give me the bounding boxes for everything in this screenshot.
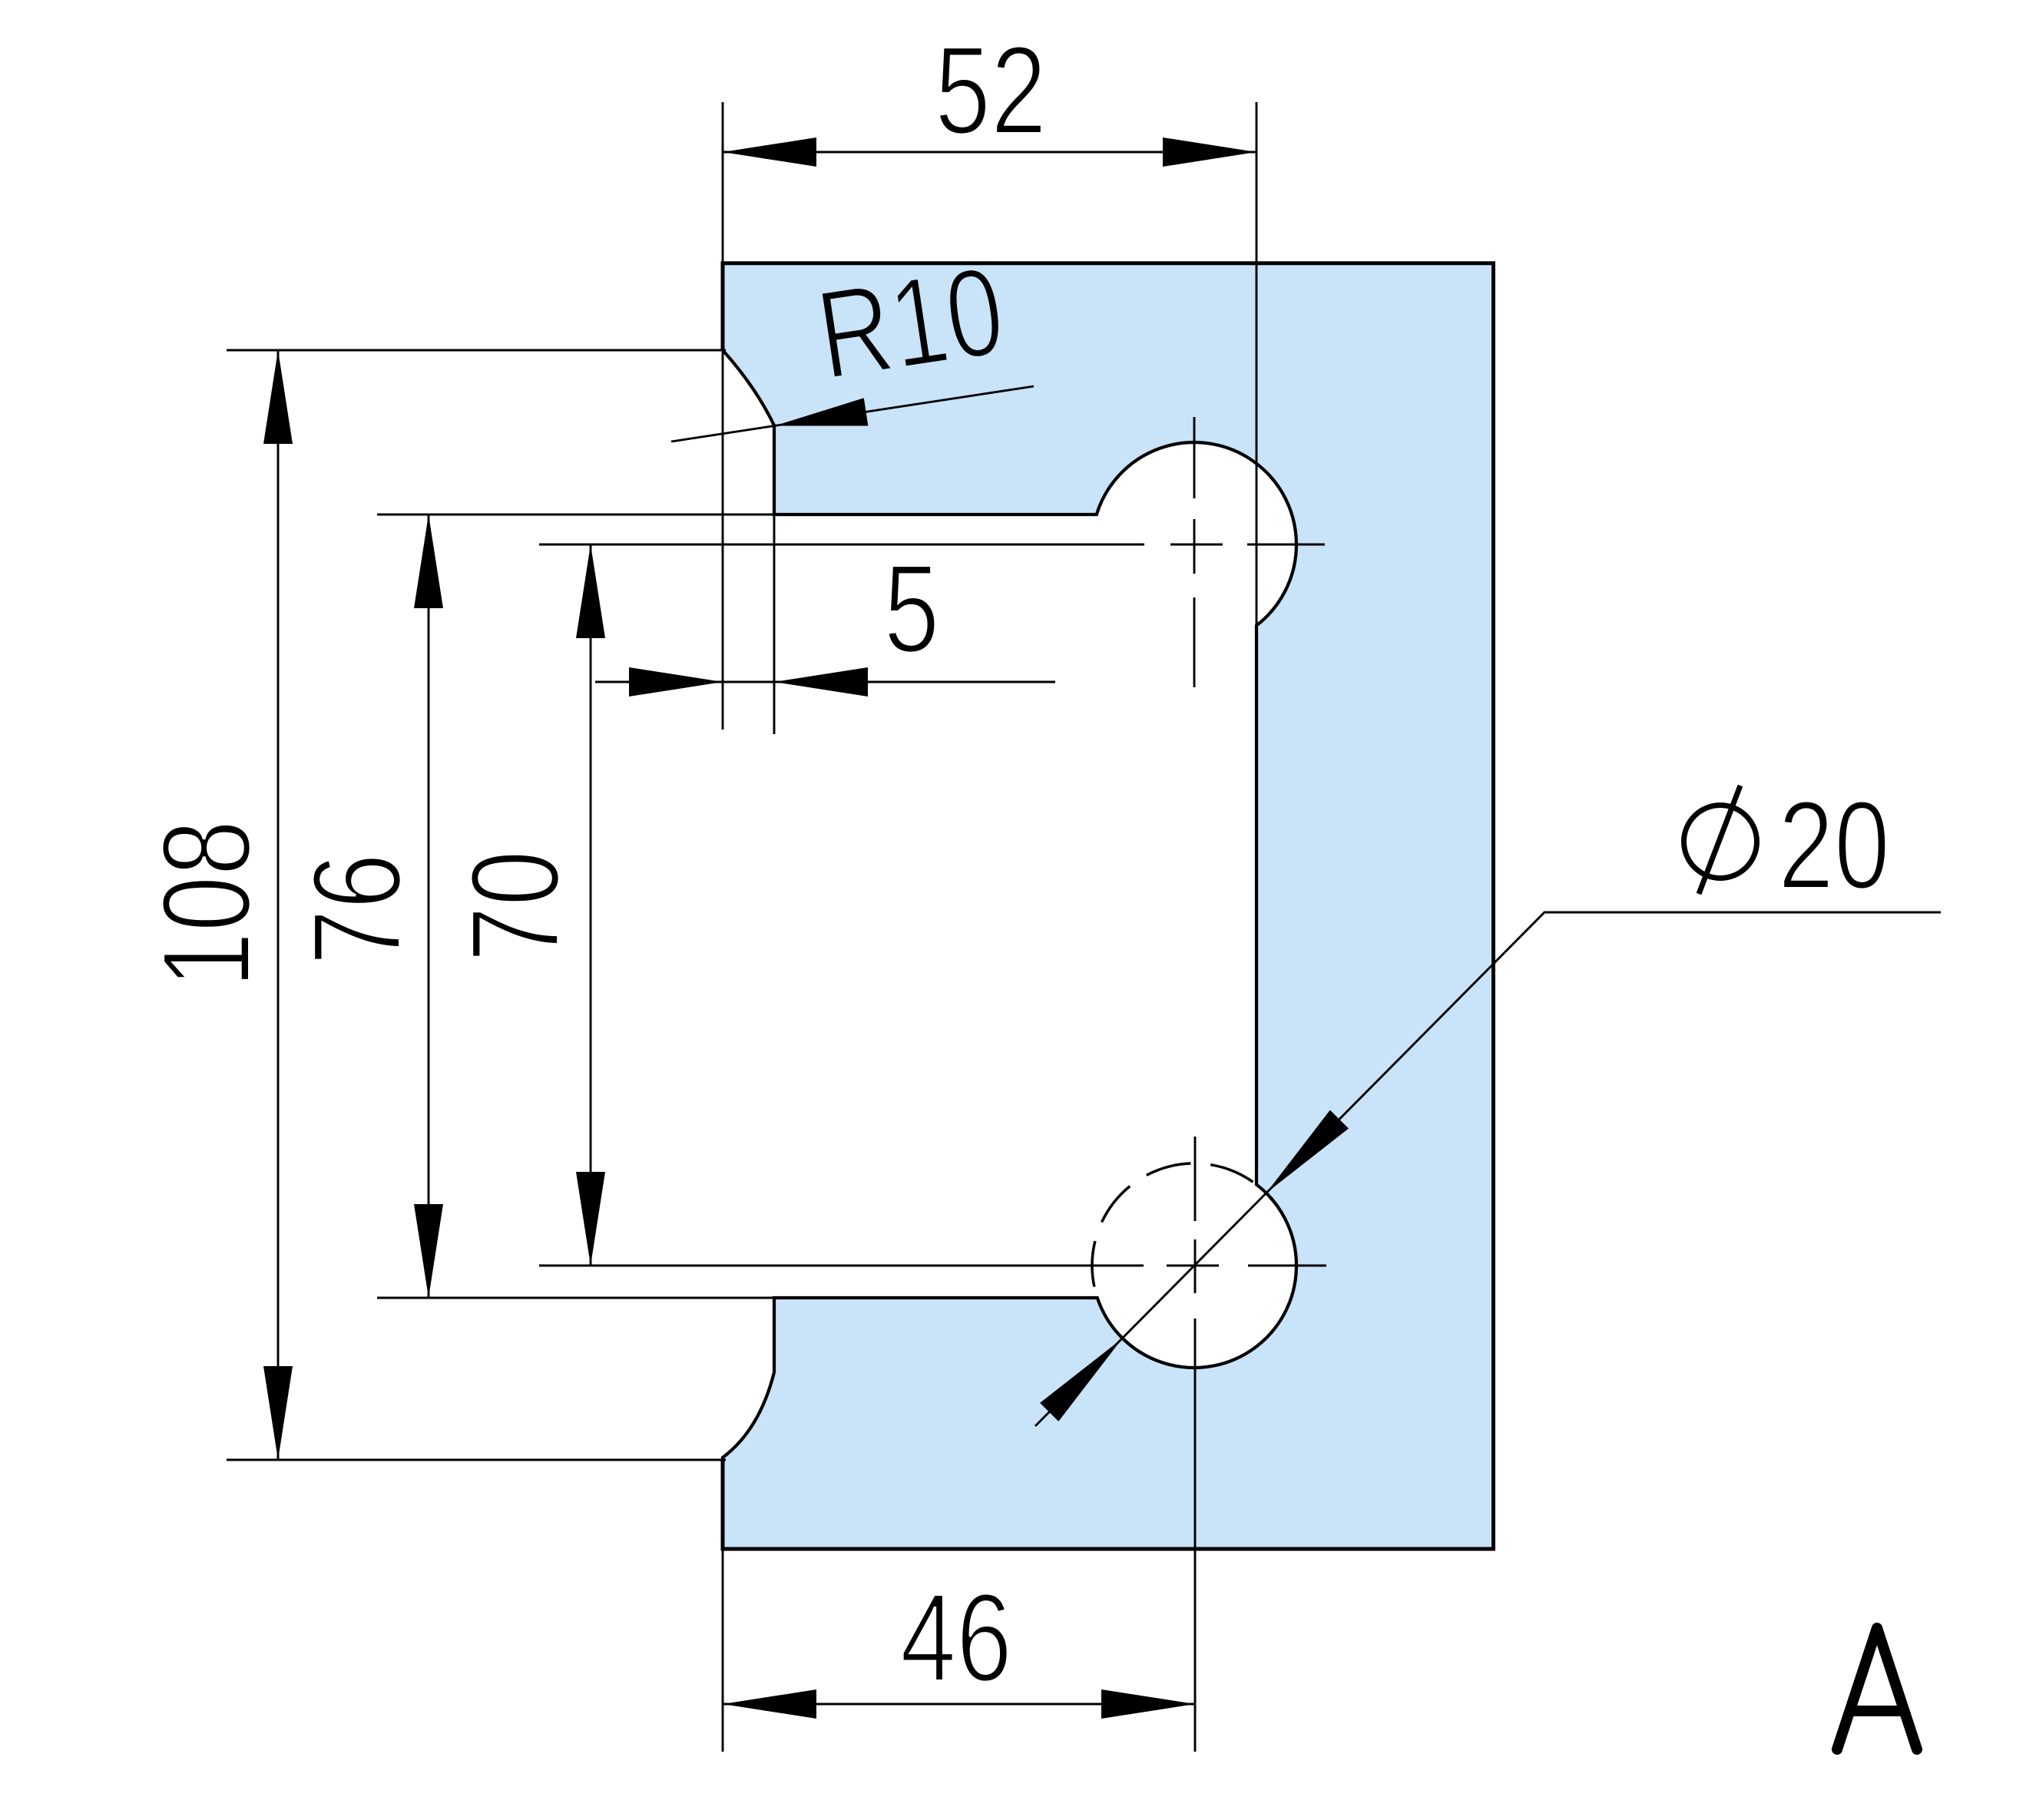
dimension line 5: [595, 681, 1055, 683]
70 top: [576, 544, 605, 638]
svg-text:76: 76: [287, 853, 427, 965]
extension 46 left: [722, 1549, 724, 1752]
svg-text:108: 108: [137, 820, 276, 988]
extension 5 right (notch inner edge column): [773, 515, 776, 734]
dimension line 108: [277, 350, 280, 1460]
svg-text:5: 5: [884, 539, 940, 679]
dimension line 46: [723, 1703, 1195, 1706]
centerline bottom hole horizontal (also 70 bottom extension): [539, 1265, 1144, 1267]
R10 arrow (tip on arc, pointing down-left along leader): [775, 398, 868, 425]
76 bottom: [414, 1204, 443, 1298]
centerline top hole horizontal (also 70 top extension): [539, 544, 1144, 546]
svg-text:70: 70: [445, 850, 585, 962]
5 right (outside, pointing left): [774, 667, 868, 697]
46 left: [723, 1689, 816, 1719]
centerline top hole vertical: [1193, 417, 1196, 498]
5 left (outside, pointing right): [629, 667, 723, 697]
hidden (dashed) arc of bottom hole: [1092, 1163, 1256, 1298]
46 right: [1101, 1689, 1195, 1719]
52 right: [1163, 137, 1256, 167]
arrowheads: [263, 137, 1349, 1719]
leader diameter 20: [1035, 912, 1941, 1426]
centerline bottom hole vertical (also 46 right extension): [1194, 1137, 1197, 1221]
extension 76 top: [377, 514, 774, 516]
svg-text:52: 52: [935, 21, 1047, 160]
52 left: [723, 137, 816, 167]
76 top: [414, 515, 443, 608]
108 top: [263, 350, 293, 444]
svg-text:46: 46: [900, 1568, 1012, 1708]
svg-text:20: 20: [1778, 776, 1890, 915]
dimension line 52: [723, 151, 1256, 154]
108 bottom: [263, 1366, 293, 1460]
dimension line 70: [590, 544, 592, 1266]
thin line work: [227, 102, 1941, 1752]
extension 76 bottom: [377, 1297, 774, 1299]
extension 108 bottom: [227, 1459, 726, 1461]
glass outer edges overdraw (thicker outer contour): [723, 263, 1494, 1549]
d20 upper arrow (tip on circle, pointing down-left): [1266, 1110, 1349, 1193]
glass panel A (filled cutout outline): [723, 263, 1494, 1549]
extension line left (52/108/5/glass edge column): [722, 102, 724, 730]
extension line right of 52 / notch right edge column: [1256, 102, 1258, 625]
svg-text:R10: R10: [809, 240, 1012, 406]
leader R10: [671, 386, 1034, 442]
diameter symbol: [1684, 786, 1757, 894]
70 bottom: [576, 1172, 605, 1266]
view label A: [1837, 1628, 1917, 1749]
dimension line 76: [428, 515, 430, 1298]
extension 108 top: [227, 349, 726, 352]
d20 lower arrow (tip on circle, pointing up-right): [1040, 1339, 1122, 1421]
